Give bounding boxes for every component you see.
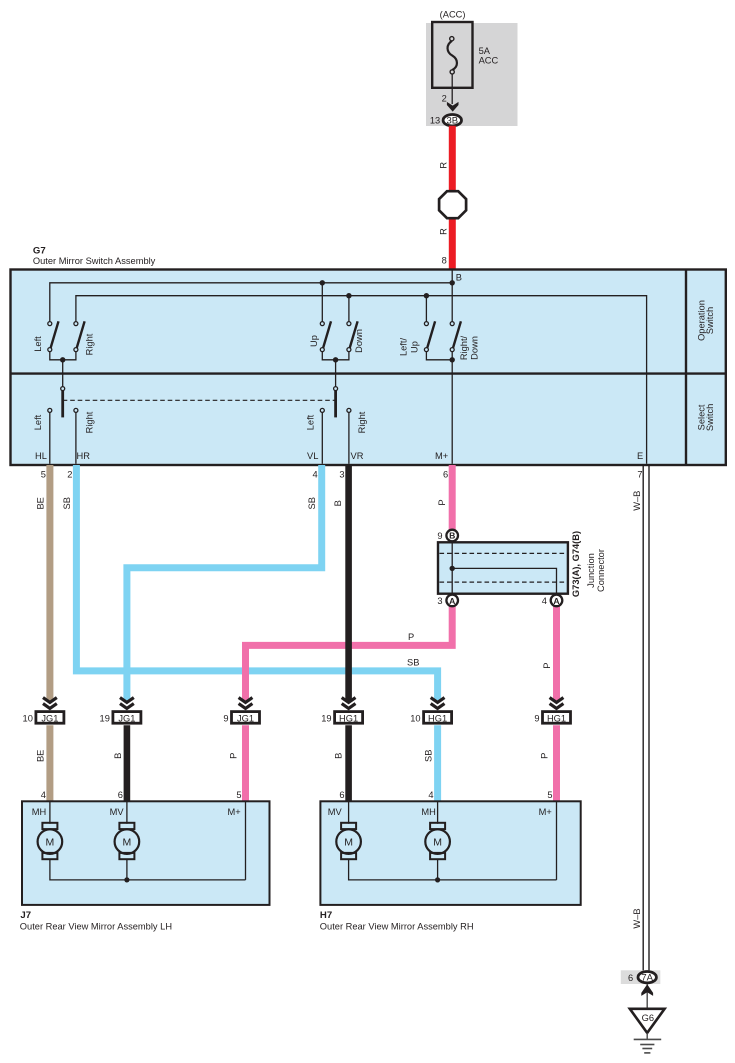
- operation switch Left/Up contact: [424, 322, 428, 326]
- svg-text:Outer Rear View Mirror Assembl: Outer Rear View Mirror Assembly RH: [320, 922, 474, 932]
- wire M+ vertical: [451, 360, 453, 464]
- svg-text:9: 9: [534, 713, 539, 723]
- junction node: [346, 293, 351, 298]
- svg-text:6: 6: [118, 790, 123, 800]
- connector box HG1 pin10: [424, 712, 452, 724]
- svg-text:4: 4: [41, 790, 46, 800]
- select switch right: feed from operation common: [335, 360, 337, 387]
- svg-text:SB: SB: [424, 750, 434, 762]
- connector 7A background: [621, 970, 661, 984]
- svg-text:VL: VL: [307, 451, 318, 461]
- svg-text:Outer Rear View Mirror Assembl: Outer Rear View Mirror Assembly LH: [20, 922, 172, 932]
- arrow up out of 7A: [641, 984, 653, 996]
- svg-text:HG1: HG1: [428, 713, 447, 723]
- wire BE JG1-10 to J7 pin4: [46, 725, 53, 802]
- select switch VL contact: [320, 408, 324, 412]
- H7 mirror assembly box: [320, 801, 580, 905]
- svg-text:Left: Left: [33, 414, 43, 430]
- svg-text:Right: Right: [357, 411, 367, 433]
- ground triangle G6: [630, 1009, 665, 1033]
- arrow into HG1-10: [431, 698, 445, 709]
- connector box JG1 pin9: [232, 712, 260, 724]
- svg-text:Right/: Right/: [459, 335, 469, 360]
- junction connector box G73/G74: [438, 542, 568, 593]
- junction node: [320, 280, 325, 285]
- svg-text:(ACC): (ACC): [440, 9, 466, 19]
- svg-text:Outer Mirror Switch Assembly: Outer Mirror Switch Assembly: [33, 256, 156, 266]
- common node Left/Up Right/Down: [450, 357, 455, 362]
- select switch mechanical link (dashed): [63, 399, 336, 401]
- svg-text:VR: VR: [351, 451, 364, 461]
- ground bars: [634, 1038, 662, 1040]
- junction internal dashed row 1: [440, 552, 567, 554]
- svg-text:SB: SB: [62, 497, 72, 509]
- svg-text:HG1: HG1: [339, 713, 358, 723]
- svg-text:Left/: Left/: [399, 338, 409, 357]
- svg-text:MH: MH: [421, 807, 435, 817]
- J7 internal wires: [50, 802, 246, 880]
- svg-text:A: A: [553, 596, 559, 606]
- svg-text:B: B: [449, 531, 455, 541]
- wire R (red) from 3B to G7 pin 8: [449, 126, 456, 270]
- select switch right blade: [334, 391, 337, 418]
- select switch VR contact: [347, 408, 351, 412]
- motor MH (H7): [425, 823, 450, 859]
- svg-text:M: M: [344, 836, 353, 848]
- arrow into JG1-10: [43, 698, 57, 709]
- svg-text:B: B: [333, 753, 343, 759]
- connector 7A oval: [638, 972, 656, 983]
- wire Down contact drop: [348, 296, 350, 322]
- common node Up/Down: [333, 357, 338, 362]
- wire P (pink) junction A to JG1-9: [246, 605, 453, 702]
- svg-text:HL: HL: [35, 451, 47, 461]
- svg-text:6: 6: [443, 470, 448, 480]
- svg-text:ACC: ACC: [479, 55, 499, 65]
- svg-text:3: 3: [437, 596, 442, 606]
- svg-text:Switch: Switch: [705, 404, 715, 431]
- select switch left: feed from operation common: [62, 360, 64, 387]
- svg-text:Right: Right: [84, 333, 94, 355]
- svg-text:5: 5: [41, 470, 46, 480]
- svg-text:Junction: Junction: [586, 553, 596, 588]
- svg-text:SB: SB: [407, 658, 419, 668]
- fuse element: [448, 41, 457, 70]
- svg-text:G7: G7: [33, 245, 46, 256]
- junction internal dashed row 2: [440, 581, 567, 583]
- junction terminal A left: [446, 595, 458, 607]
- svg-text:7: 7: [637, 470, 642, 480]
- svg-text:W–B: W–B: [632, 908, 642, 928]
- wire Up contact drop: [321, 283, 323, 322]
- svg-text:6: 6: [339, 790, 344, 800]
- wire fuse to connector: [451, 74, 453, 104]
- wire SB HG1-10 to H7 pin4: [434, 725, 441, 802]
- wire BE (beige) HL pin5 to JG1-10: [46, 465, 53, 702]
- wire B (black) VR pin3 to HG1-19: [345, 465, 352, 702]
- svg-text:P: P: [542, 663, 552, 669]
- connector 3B oval: [443, 115, 461, 126]
- svg-text:P: P: [408, 632, 414, 642]
- svg-text:MH: MH: [32, 807, 46, 817]
- G7 horizontal divider: [11, 372, 726, 374]
- wire Left/Up contact drop: [425, 296, 427, 322]
- svg-text:2: 2: [67, 470, 72, 480]
- connector box JG1 pin19: [113, 712, 141, 724]
- operation switch Down contact: [347, 322, 351, 326]
- svg-text:Up: Up: [309, 335, 319, 347]
- svg-text:Up: Up: [409, 341, 419, 353]
- svg-text:M: M: [433, 836, 442, 848]
- wire SB (sky blue) VL pin4 to JG1-19: [127, 465, 322, 702]
- svg-text:Switch: Switch: [705, 307, 715, 334]
- svg-text:M+: M+: [228, 807, 241, 817]
- select switch left blade: [61, 391, 64, 418]
- wire W-B (white-black) E pin7 to 7A: [642, 465, 644, 971]
- splice octagon: [439, 191, 466, 218]
- wire P (pink) junction A to HG1-9: [553, 605, 560, 702]
- svg-text:BE: BE: [35, 497, 45, 509]
- svg-text:Down: Down: [469, 336, 479, 360]
- junction internal node: [450, 566, 455, 571]
- svg-text:MV: MV: [110, 807, 125, 817]
- svg-text:3B: 3B: [446, 116, 458, 127]
- wire SB (sky blue) HR pin2 to HG1-10: [76, 465, 437, 702]
- ground stem: [646, 1033, 648, 1040]
- arrow into HG1-9: [550, 698, 564, 709]
- motor MV (J7): [115, 823, 140, 859]
- svg-text:5: 5: [236, 790, 241, 800]
- J7 mirror assembly box: [22, 801, 270, 905]
- svg-text:19: 19: [321, 713, 331, 723]
- svg-text:MV: MV: [328, 807, 343, 817]
- svg-text:H7: H7: [320, 910, 332, 921]
- svg-text:P: P: [540, 753, 550, 759]
- arrow into HG1-19: [342, 698, 356, 709]
- svg-text:4: 4: [313, 470, 318, 480]
- svg-text:G73(A), G74(B): G73(A), G74(B): [571, 531, 581, 597]
- svg-text:Connector: Connector: [596, 549, 606, 592]
- svg-text:W–B: W–B: [632, 491, 642, 511]
- wire B JG1-19 to J7 pin6: [124, 725, 131, 802]
- wire P HG1-9 to H7 pin5: [553, 725, 560, 802]
- svg-text:SB: SB: [307, 497, 317, 509]
- operation switch Right/Down contact: [450, 322, 454, 326]
- operation switch Right contact: [74, 322, 78, 326]
- svg-text:BE: BE: [35, 750, 45, 762]
- svg-text:B: B: [456, 273, 462, 283]
- svg-text:9: 9: [437, 531, 442, 541]
- svg-text:Right: Right: [84, 411, 94, 433]
- connector box HG1 pin19: [335, 712, 363, 724]
- H7 internal node: [435, 877, 440, 882]
- svg-text:Left: Left: [33, 336, 43, 352]
- H7 internal wires: [349, 802, 557, 880]
- bus wire second (E bus): [76, 296, 647, 464]
- G7 switch assembly box: [11, 270, 726, 466]
- wire P (pink) M+ pin6 to junction B: [449, 465, 456, 531]
- svg-text:9: 9: [223, 713, 228, 723]
- wire B HG1-19 to H7 pin6: [345, 725, 352, 802]
- svg-text:10: 10: [410, 713, 420, 723]
- svg-text:R: R: [438, 228, 448, 235]
- wire stub from pin 8 into bus: [451, 270, 453, 283]
- svg-text:19: 19: [100, 713, 110, 723]
- svg-text:B: B: [333, 500, 343, 506]
- bus wire top (B bus): [50, 283, 452, 322]
- svg-text:4: 4: [542, 596, 547, 606]
- select switch HL contact: [48, 408, 52, 412]
- junction terminal A right: [551, 595, 563, 607]
- junction node: [424, 293, 429, 298]
- G7 right column divider: [685, 270, 687, 466]
- svg-text:5: 5: [547, 790, 552, 800]
- operation switch Up contact: [320, 322, 324, 326]
- arrow into JG1-19: [120, 698, 134, 709]
- wire Right/Down contact drop: [451, 283, 453, 322]
- fuse 5A ACC box: [432, 22, 472, 88]
- wire to ground: [646, 984, 648, 1009]
- junction internal wire: [452, 543, 556, 593]
- svg-text:JG1: JG1: [237, 713, 254, 723]
- motor MV (H7): [336, 823, 361, 859]
- svg-text:2: 2: [442, 93, 447, 103]
- svg-text:7A: 7A: [641, 973, 653, 984]
- wire P JG1-9 to J7 pin5: [242, 725, 249, 802]
- svg-text:G6: G6: [642, 1013, 654, 1023]
- svg-text:B: B: [113, 753, 123, 759]
- J7 internal node: [124, 877, 129, 882]
- connector box HG1 pin9: [543, 712, 571, 724]
- svg-text:M: M: [123, 836, 132, 848]
- arrow into JG1-9: [239, 698, 253, 709]
- svg-text:P: P: [229, 753, 239, 759]
- common node Left/Right: [60, 357, 65, 362]
- svg-text:6: 6: [628, 973, 633, 983]
- operation switch Left contact: [48, 322, 52, 326]
- select switch HR contact: [74, 408, 78, 412]
- svg-text:3: 3: [339, 470, 344, 480]
- junction terminal B: [446, 530, 458, 542]
- svg-text:JG1: JG1: [118, 713, 135, 723]
- svg-text:JG1: JG1: [41, 713, 58, 723]
- svg-text:13: 13: [430, 116, 440, 126]
- svg-text:R: R: [438, 162, 448, 169]
- svg-text:P: P: [437, 499, 447, 505]
- svg-text:Down: Down: [354, 329, 364, 353]
- svg-text:M+: M+: [539, 807, 552, 817]
- svg-text:A: A: [449, 596, 455, 606]
- svg-text:10: 10: [23, 713, 33, 723]
- svg-text:8: 8: [442, 256, 447, 266]
- junction node: [450, 280, 455, 285]
- svg-text:HR: HR: [77, 451, 91, 461]
- svg-text:M+: M+: [435, 451, 448, 461]
- svg-text:J7: J7: [20, 910, 31, 921]
- fuse block background (instrument panel J/B): [426, 23, 518, 126]
- svg-text:4: 4: [428, 790, 433, 800]
- svg-text:HG1: HG1: [547, 713, 566, 723]
- connector box JG1 pin10: [36, 712, 64, 724]
- svg-text:Left: Left: [306, 414, 316, 430]
- svg-text:M: M: [46, 836, 55, 848]
- svg-text:E: E: [637, 451, 643, 461]
- arrow down into connector 3B: [447, 102, 459, 112]
- motor MH (J7): [38, 823, 63, 859]
